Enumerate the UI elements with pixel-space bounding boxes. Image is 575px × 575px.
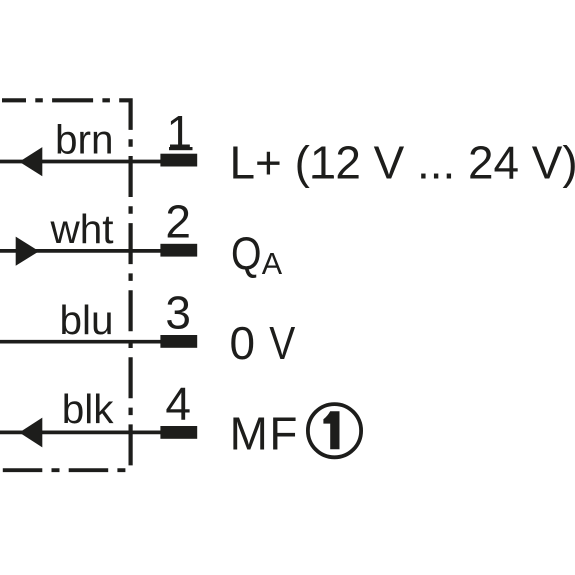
- svg-text:L+ (12 V ... 24 V): L+ (12 V ... 24 V): [230, 136, 575, 188]
- svg-text:blk: blk: [62, 386, 115, 432]
- svg-text:blu: blu: [59, 297, 113, 343]
- svg-text:V: V: [269, 317, 295, 369]
- svg-text:brn: brn: [55, 116, 114, 162]
- svg-text:A: A: [262, 247, 283, 281]
- svg-text:Q: Q: [231, 227, 262, 279]
- svg-text:4: 4: [165, 378, 191, 430]
- svg-text:2: 2: [165, 195, 191, 247]
- svg-text:0: 0: [230, 317, 256, 369]
- svg-text:3: 3: [165, 286, 191, 338]
- svg-text:MF: MF: [230, 408, 299, 460]
- svg-text:wht: wht: [49, 206, 113, 252]
